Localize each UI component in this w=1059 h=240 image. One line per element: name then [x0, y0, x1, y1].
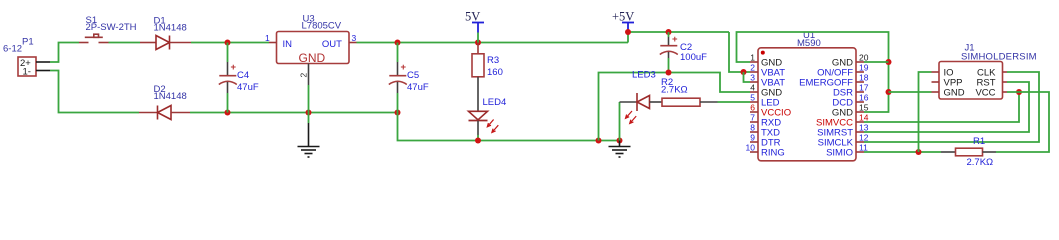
bottom rail left: [398, 113, 620, 141]
svg-text:C4: C4: [237, 70, 249, 81]
junction pin20 gnd: [886, 59, 892, 65]
wire GND over the top: [737, 32, 889, 112]
wire VCC row: [996, 92, 1049, 152]
wire P1 pin1 to D2: [50, 71, 139, 113]
svg-text:2: 2: [750, 63, 755, 73]
svg-text:6: 6: [750, 103, 755, 113]
svg-text:GND: GND: [944, 88, 965, 99]
regulator U3 L7805CV: [265, 14, 357, 86]
LED3 arrows: [626, 111, 637, 124]
svg-text:47uF: 47uF: [407, 82, 429, 93]
svg-text:17: 17: [859, 83, 869, 93]
svg-text:2: 2: [299, 73, 309, 78]
wire SIMRST pin13: [864, 82, 1029, 132]
svg-text:+: +: [401, 62, 407, 73]
capacitor C2: [660, 32, 707, 73]
wire S1 to D1: [109, 42, 141, 44]
junction J1 gnd tee: [886, 89, 892, 95]
svg-text:12: 12: [859, 133, 869, 143]
LED4 arrows: [487, 120, 498, 133]
svg-text:2P-SW-2TH: 2P-SW-2TH: [86, 22, 137, 33]
svg-text:+: +: [672, 34, 678, 45]
svg-text:2.7KΩ: 2.7KΩ: [661, 85, 688, 96]
svg-text:6-12: 6-12: [3, 44, 22, 55]
switch S1: [79, 15, 137, 43]
ground right of LED3: [609, 141, 631, 158]
wire +5V feed to U1 VBAT: [729, 32, 750, 72]
junction C5 bottom: [395, 110, 401, 116]
svg-text:1N4148: 1N4148: [154, 91, 187, 102]
svg-text:7: 7: [750, 113, 755, 123]
svg-text:4: 4: [750, 83, 755, 93]
resistor R1: [941, 136, 996, 168]
wire SIMCLK pin12: [864, 72, 1039, 142]
junction VCC tee: [1016, 89, 1022, 95]
wire P1 pin2 to S1: [50, 43, 79, 63]
power flag 5V: [465, 10, 484, 43]
svg-text:+5V: +5V: [612, 10, 634, 24]
ground under U3: [298, 147, 320, 158]
U1 right pin numbers: [859, 53, 869, 153]
svg-text:160: 160: [487, 67, 503, 78]
svg-text:1-: 1-: [23, 67, 31, 78]
junction gnd net riser: [596, 138, 602, 144]
svg-text:15: 15: [859, 103, 869, 113]
U1 left pin names: [761, 58, 791, 159]
svg-text:2.7KΩ: 2.7KΩ: [967, 157, 994, 168]
svg-text:C5: C5: [407, 70, 419, 81]
svg-text:R3: R3: [487, 55, 499, 66]
wire SIMIO pin11: [864, 151, 941, 153]
junction VBAT pin2: [741, 69, 747, 75]
junction C4 bottom: [225, 110, 231, 116]
junction C5 top: [395, 40, 401, 46]
U3 pin 1: [269, 42, 277, 44]
svg-text:1: 1: [750, 53, 755, 63]
LED4: [469, 97, 507, 141]
svg-text:L7805CV: L7805CV: [302, 21, 342, 32]
svg-text:19: 19: [859, 63, 869, 73]
svg-text:9: 9: [750, 133, 755, 143]
svg-text:5V: 5V: [465, 10, 480, 24]
svg-text:LED4: LED4: [483, 97, 507, 108]
junction SIMIO tee: [916, 149, 922, 155]
J1 left stubs: [932, 71, 940, 73]
connector P1: [3, 36, 50, 77]
power flag +5V: [612, 10, 634, 32]
svg-text:20: 20: [859, 53, 869, 63]
svg-text:18: 18: [859, 73, 869, 83]
U1 right pin stubs: [856, 62, 864, 152]
capacitor C5: [389, 43, 429, 113]
wire gnd to J1: [889, 91, 932, 93]
junction LED4 bottom: [475, 138, 481, 144]
resistor R3: [472, 43, 503, 112]
svg-text:1: 1: [265, 33, 270, 43]
junction C4 top: [225, 40, 231, 46]
U3 pin 3: [349, 42, 357, 44]
svg-text:OUT: OUT: [322, 39, 342, 50]
svg-text:SIMIO: SIMIO: [826, 148, 853, 159]
svg-text:1N4148: 1N4148: [154, 23, 187, 34]
svg-text:8: 8: [750, 123, 755, 133]
diode D1: [140, 16, 191, 50]
wire D2 row to C5 bottom: [190, 112, 398, 114]
svg-text:47uF: 47uF: [237, 82, 259, 93]
svg-text:5: 5: [750, 93, 755, 103]
svg-text:16: 16: [859, 93, 869, 103]
SIM holder J1: [932, 42, 1037, 99]
wire U3 out 5V rail: [357, 42, 629, 44]
U3 pin 2: [308, 64, 310, 86]
svg-text:+: +: [231, 62, 237, 73]
junction U3 gnd: [306, 110, 312, 116]
svg-text:11: 11: [859, 143, 868, 153]
svg-text:SIMHOLDERSIM: SIMHOLDERSIM: [961, 51, 1037, 62]
svg-text:IN: IN: [283, 39, 293, 50]
U1 left pin stubs: [750, 62, 758, 152]
wire 5V rail up to +5V rail: [628, 32, 729, 43]
junction +5V flag: [625, 29, 631, 35]
svg-text:100uF: 100uF: [680, 52, 707, 63]
diode D2: [139, 84, 190, 120]
svg-text:VCC: VCC: [975, 88, 995, 99]
svg-text:10: 10: [746, 143, 756, 153]
svg-text:R1: R1: [973, 136, 985, 147]
junction C2 bottom: [666, 70, 672, 76]
J1 right stubs: [1003, 71, 1008, 73]
svg-text:3: 3: [352, 33, 357, 43]
wire VBAT pin3 jog: [744, 72, 751, 82]
junction 5V flag: [475, 40, 481, 46]
wire SIMVCC pin14: [864, 92, 1019, 122]
svg-text:RING: RING: [761, 148, 785, 159]
wire U3 gnd down: [308, 85, 310, 123]
wire SIMIO up to J1 IO: [919, 72, 932, 152]
svg-text:3: 3: [750, 73, 755, 83]
IC U1 M590: [758, 30, 856, 161]
svg-text:P1: P1: [22, 36, 34, 47]
wire D1 to U3 input: [191, 42, 269, 44]
svg-text:13: 13: [859, 123, 869, 133]
wire gnd mid net: [599, 73, 751, 141]
svg-text:M590: M590: [797, 38, 821, 49]
svg-text:14: 14: [859, 113, 869, 123]
resistor R2: [661, 77, 750, 106]
junction LED3 ground: [617, 138, 623, 144]
svg-text:GND: GND: [299, 51, 326, 65]
wire pin20 gnd stub: [864, 61, 889, 63]
LED3: [620, 70, 663, 141]
U1 right pin names: [799, 58, 854, 159]
svg-text:LED3: LED3: [632, 70, 656, 81]
capacitor C4: [219, 43, 259, 113]
junction C2 top: [666, 29, 672, 35]
U1 left pin numbers: [746, 53, 756, 153]
